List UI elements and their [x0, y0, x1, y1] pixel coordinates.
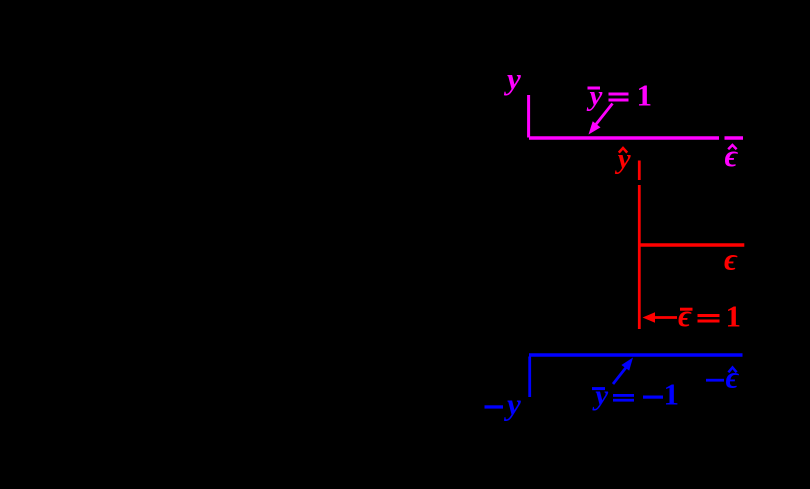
label epsilon (red): [724, 242, 738, 277]
wire: red vertical line upper dash segment: [638, 161, 641, 181]
svg-text:ϵ: ϵ: [726, 360, 740, 395]
node y label (magenta): [503, 61, 521, 96]
wire: magenta short dash at right end of y=+1 level: [725, 136, 744, 140]
svg-text:1: 1: [637, 78, 653, 113]
label minus y (blue): [485, 387, 522, 422]
wire: magenta vertical tick at left end of y=+1 level: [527, 95, 530, 138]
svg-text:1: 1: [726, 298, 742, 333]
label minus epsilon-hat (blue): [706, 360, 740, 395]
wire: blue horizontal level line y=-1: [529, 353, 743, 357]
label ybar = 1 (magenta): [587, 78, 653, 113]
label ybar = -1 (blue): [592, 377, 679, 412]
label epsilonbar = 1 (red): [678, 298, 741, 333]
arrow from ybar=1 label down-left to magenta line: [589, 104, 613, 135]
wire: magenta horizontal level line y=+1: [529, 136, 719, 140]
arrow pointing left to bottom of red vertical line: [643, 312, 678, 323]
label yhat (red): [615, 143, 631, 175]
wire: red horizontal level line: [640, 243, 744, 246]
svg-text:y: y: [587, 80, 603, 112]
svg-text:y: y: [592, 380, 608, 412]
wire: blue vertical tick at left end of y=-1 level: [528, 357, 531, 398]
svg-text:ϵ: ϵ: [725, 138, 739, 173]
wire: red vertical line lower segment: [638, 185, 641, 329]
svg-text:ϵ: ϵ: [724, 242, 738, 277]
arrow from ybar=-1 label up-right to blue line: [613, 358, 633, 385]
label epsilon-hat (magenta): [725, 138, 739, 173]
svg-text:1: 1: [664, 377, 680, 412]
svg-text:ϵ: ϵ: [678, 298, 692, 333]
